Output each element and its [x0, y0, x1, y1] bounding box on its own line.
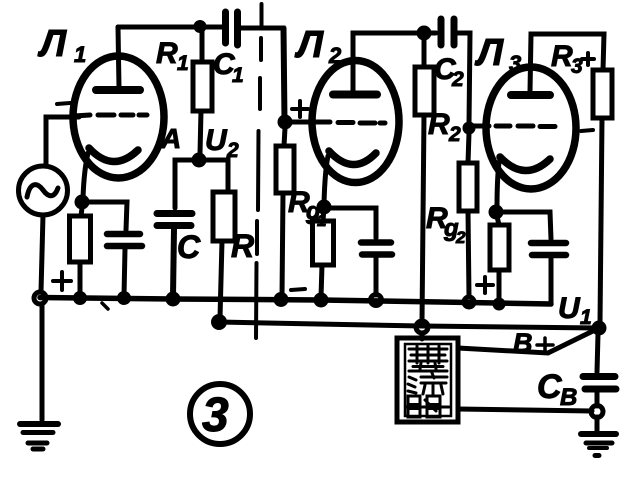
- svg-text:1: 1: [177, 52, 189, 75]
- wire grid L1 to AC source: [46, 117, 79, 165]
- node grid L3 junction: [463, 122, 476, 135]
- node dot bus1 x124: [117, 291, 131, 305]
- tube U-L3 cathode arc: [500, 157, 550, 171]
- node ring bus1 under Rg2: [464, 297, 474, 307]
- tube U-L3 plate bar: [511, 91, 550, 99]
- dashed divider line: [256, 4, 262, 338]
- svg-text:C: C: [537, 368, 562, 406]
- label plus near L2 grid: [292, 101, 308, 117]
- capacitor bypass L3: [531, 243, 566, 255]
- tube U-L2 cathode lead: [324, 156, 328, 203]
- svg-text:3: 3: [509, 51, 521, 76]
- node L3 cathode junction: [489, 205, 504, 220]
- svg-text:Л: Л: [37, 23, 67, 65]
- rectifier char qi: [406, 396, 449, 417]
- svg-text:1: 1: [74, 42, 86, 67]
- wire C1 right to down lead: [241, 28, 284, 120]
- tube U-L2 cathode arc: [329, 151, 376, 165]
- label plus near L3 cathode: [477, 277, 493, 293]
- figure number circled 3: [190, 384, 250, 444]
- capacitor bypass L1: [107, 234, 142, 246]
- node ring bus1 under cap L2: [371, 295, 382, 306]
- tube U-L3 envelope: [486, 67, 576, 189]
- wire node to ground: [40, 304, 45, 420]
- svg-text:A: A: [160, 123, 181, 154]
- capacitor C1: [226, 12, 238, 45]
- node dot bus1 x80: [73, 291, 87, 305]
- node dot bus1 x499: [493, 298, 506, 311]
- node dot bus1 x321: [314, 293, 329, 308]
- wire node A to R: [199, 160, 228, 191]
- svg-text:2: 2: [448, 123, 461, 146]
- capacitor bypass L2: [361, 243, 392, 255]
- svg-text:B: B: [560, 384, 577, 411]
- label minus near L1 grid: [57, 103, 70, 104]
- capacitor C2: [424, 31, 436, 36]
- label minus right of L3: [581, 130, 593, 131]
- stray tick below bus1: [102, 303, 108, 309]
- resistor Rg1: [284, 128, 285, 146]
- node A junction: [192, 153, 207, 168]
- tube U-L1 envelope: [73, 56, 164, 178]
- svg-text:R: R: [551, 40, 573, 73]
- ground left: [20, 424, 58, 449]
- resistor L3 cathode: [496, 212, 499, 225]
- tube U-L2 grid dashes: [316, 122, 385, 123]
- svg-text:2: 2: [328, 43, 342, 68]
- capacitor CB: [583, 377, 616, 390]
- wire B+ from rectifier to rail: [458, 329, 597, 353]
- wire top-left plate wire Л1 to R1/C1: [118, 25, 222, 30]
- capacitor C: [157, 214, 192, 226]
- resistor L2 cathode: [323, 207, 324, 221]
- node dot top R2/C2: [417, 26, 432, 41]
- wire cathode node to bypass cap C (L2): [324, 208, 376, 238]
- svg-text:U: U: [205, 124, 228, 157]
- wire node to ground right: [595, 417, 600, 431]
- node dot bus1 x281: [274, 292, 289, 307]
- wire ring to rectifier box: [420, 333, 425, 339]
- svg-text:1: 1: [580, 306, 592, 329]
- label plus bottom-left: [53, 272, 71, 290]
- wire L1 cathode node to bypass cap: [82, 202, 127, 230]
- node ring bus2 above rectifier: [416, 321, 428, 333]
- svg-text:3: 3: [202, 389, 229, 442]
- cathode resistor L1: [75, 195, 90, 210]
- svg-text:R: R: [231, 228, 254, 264]
- wire rectifier bottom output: [458, 409, 592, 411]
- svg-text:R: R: [156, 37, 178, 70]
- tube U-L1 anode lead: [118, 27, 119, 88]
- bus1 ground bus: [40, 298, 551, 305]
- node dot B+ right rail: [592, 321, 607, 336]
- tube U-L2 plate bar: [333, 91, 377, 99]
- resistor R2: [422, 39, 427, 67]
- node grid L2 junction: [278, 115, 293, 130]
- wire grid node to tube L2: [285, 120, 315, 125]
- wire node A to C cap: [175, 160, 199, 208]
- rectifier box inner: [405, 344, 451, 416]
- svg-text:R: R: [428, 108, 450, 141]
- rectifier char zheng: [409, 345, 447, 371]
- AC source G1: [19, 166, 68, 215]
- tube U-L3 grid dashes: [496, 124, 555, 130]
- wire bypass cap L1 down: [124, 249, 125, 296]
- node junction top R1: [194, 20, 207, 33]
- node terminal ring left: [34, 292, 46, 304]
- wire AC bottom to terminal node: [41, 215, 43, 292]
- svg-text:2: 2: [451, 68, 464, 91]
- tube U-L1 grid dashes: [74, 115, 147, 116]
- svg-text:C: C: [177, 229, 201, 265]
- wire C1 lead into grid node (vertical): [284, 28, 285, 122]
- svg-text:Л: Л: [474, 32, 504, 74]
- wire cathode node to bypass cap (L3): [496, 212, 551, 239]
- tube U-L2 envelope: [312, 61, 399, 183]
- wire bypass cap lead down: [374, 258, 379, 295]
- tube U-L3 anode lead and top wire: [530, 34, 604, 92]
- resistor R1: [200, 30, 205, 62]
- svg-text:B: B: [513, 328, 533, 358]
- tube U-L1 cathode lead: [83, 153, 88, 198]
- wire CB to ground node: [595, 392, 600, 406]
- rectifier char liu: [408, 373, 447, 394]
- AC source sine: [27, 185, 58, 197]
- wire C bottom lead: [173, 229, 174, 296]
- node L2 cathode junction: [317, 200, 332, 215]
- resistor Rg2: [468, 133, 469, 163]
- resistor R3: [593, 70, 612, 118]
- tube U-L2 anode lead and top wire: [353, 33, 424, 92]
- rectifier box outer: [397, 338, 458, 422]
- wire bypass cap lead to bus1 end: [549, 258, 554, 303]
- wire grid node to tube L3: [469, 124, 489, 129]
- svg-text:U: U: [558, 292, 581, 325]
- label minus near Rg1 bottom: [291, 289, 305, 290]
- wire C2 right to grid L3: [455, 33, 470, 124]
- label plus after R3: [582, 53, 594, 65]
- ground right: [581, 434, 616, 456]
- svg-text:2: 2: [455, 228, 466, 247]
- tube U-L1 plate bar: [96, 86, 140, 94]
- tube U-L3 cathode lead: [497, 162, 499, 208]
- resistor R: [213, 192, 235, 241]
- tube U-L1 cathode arc: [89, 148, 138, 162]
- node ring ground right: [591, 406, 603, 418]
- wire rail node to CB: [597, 334, 598, 372]
- bus2 B+ bus: [211, 314, 227, 330]
- svg-text:1: 1: [232, 64, 244, 87]
- svg-text:Л: Л: [294, 24, 324, 66]
- node dot bus1 x173: [166, 292, 181, 307]
